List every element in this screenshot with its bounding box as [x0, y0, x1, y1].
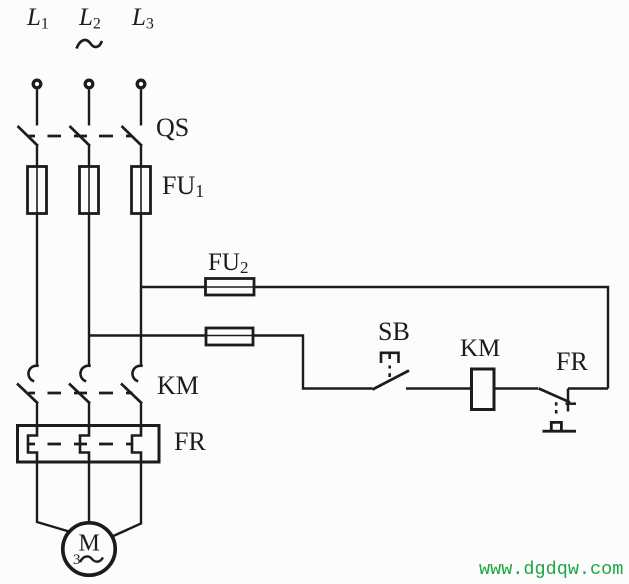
svg-text:KM: KM	[157, 371, 199, 400]
svg-text:L1: L1	[26, 4, 49, 33]
svg-text:3: 3	[73, 552, 81, 568]
svg-text:KM: KM	[460, 335, 500, 362]
svg-text:M: M	[79, 531, 100, 557]
svg-text:FU2: FU2	[208, 249, 248, 277]
svg-text:SB: SB	[378, 317, 410, 346]
svg-text:FR: FR	[174, 427, 206, 456]
svg-text:L3: L3	[131, 4, 154, 33]
svg-text:QS: QS	[156, 113, 189, 142]
svg-text:L2: L2	[78, 4, 101, 33]
svg-text:www.dgdqw.com: www.dgdqw.com	[479, 559, 623, 580]
svg-text:FR: FR	[556, 347, 588, 376]
svg-text:FU1: FU1	[162, 171, 204, 201]
